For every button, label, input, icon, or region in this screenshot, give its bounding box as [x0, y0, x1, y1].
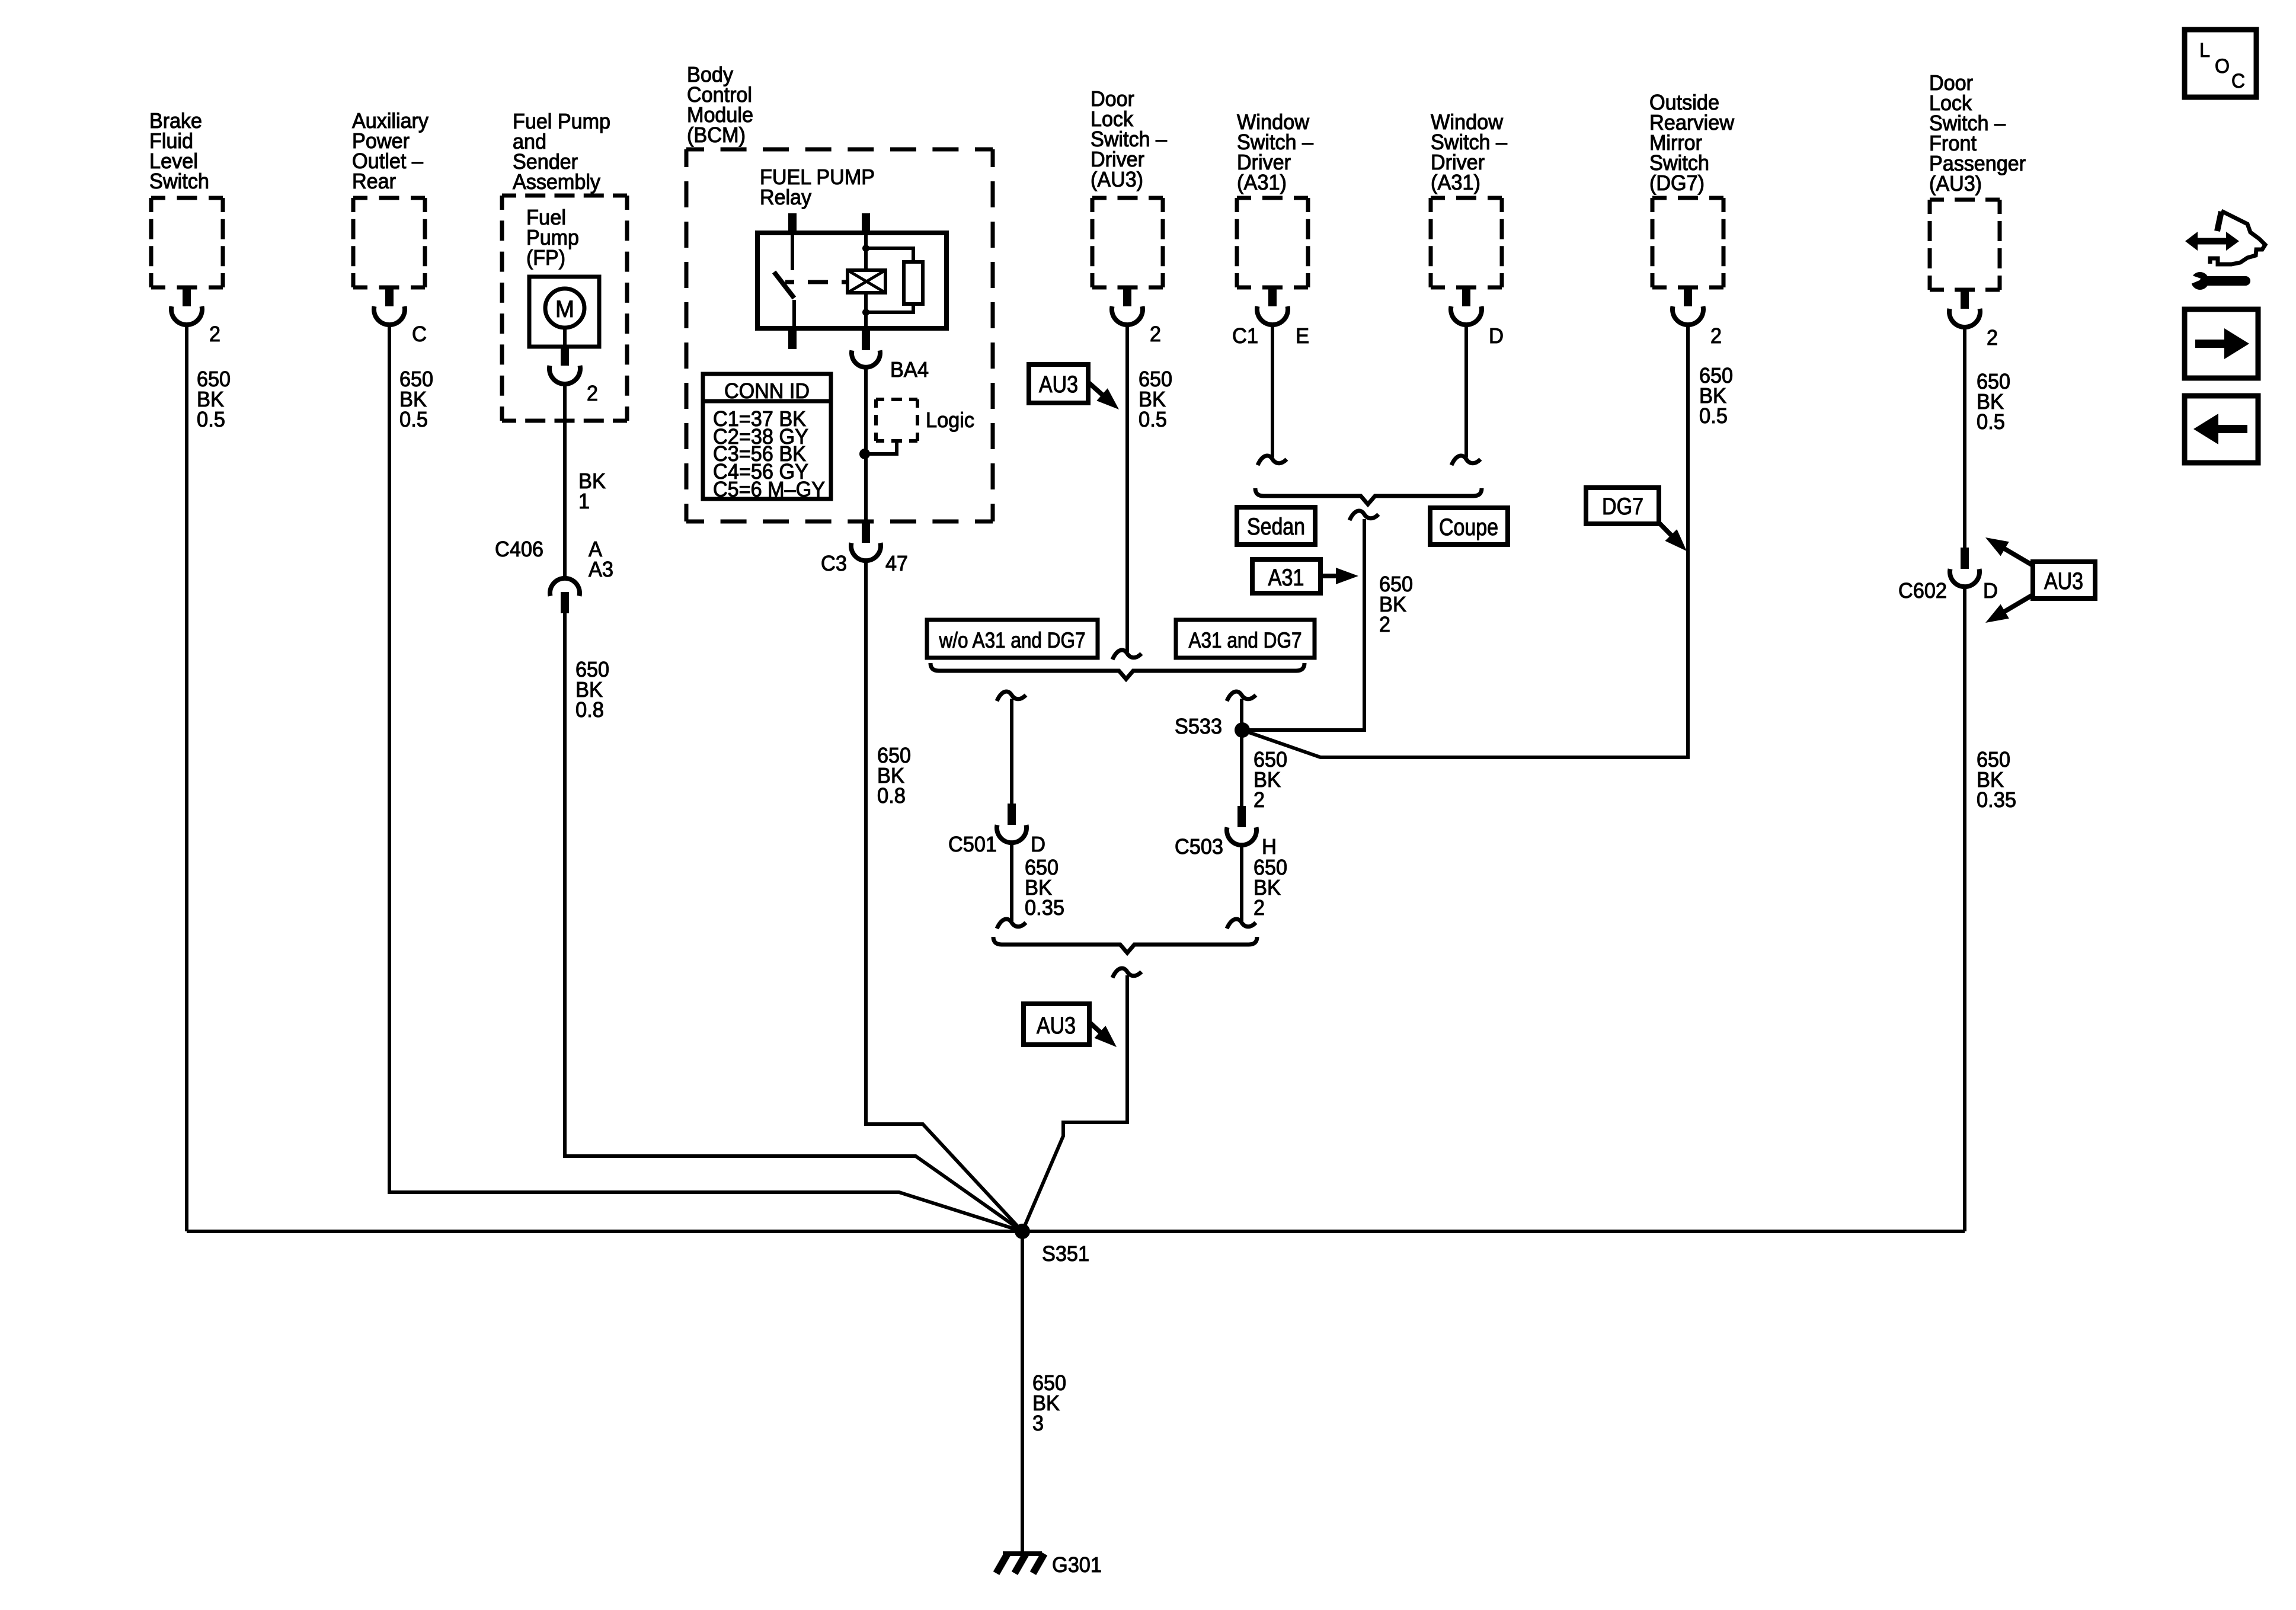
svg-text:DG7: DG7 [1602, 494, 1643, 520]
svg-text:(FP): (FP) [526, 245, 565, 270]
svg-text:G301: G301 [1052, 1553, 1102, 1577]
svg-text:(A31): (A31) [1431, 170, 1480, 194]
svg-text:(AU3): (AU3) [1929, 171, 1982, 196]
svg-text:0.5: 0.5 [197, 407, 225, 431]
svg-text:M: M [555, 296, 574, 322]
svg-text:AU3: AU3 [2044, 568, 2083, 594]
svg-text:2: 2 [1379, 612, 1390, 636]
svg-text:Assembly: Assembly [513, 169, 600, 194]
svg-text:2: 2 [1253, 788, 1265, 812]
svg-text:0.35: 0.35 [1025, 895, 1064, 920]
svg-text:L: L [2199, 39, 2210, 62]
svg-text:0.8: 0.8 [575, 697, 604, 722]
svg-text:D: D [1489, 324, 1504, 348]
svg-text:C: C [2231, 70, 2245, 92]
svg-text:0.5: 0.5 [1977, 409, 2005, 434]
svg-text:0.8: 0.8 [877, 783, 906, 808]
svg-text:0.35: 0.35 [1977, 788, 2016, 812]
svg-text:(DG7): (DG7) [1649, 171, 1705, 195]
svg-text:C3: C3 [821, 551, 847, 575]
svg-text:C1: C1 [1232, 324, 1258, 348]
svg-text:AU3: AU3 [1037, 1013, 1076, 1039]
svg-text:C503: C503 [1175, 834, 1223, 859]
svg-text:0.5: 0.5 [1699, 404, 1728, 428]
svg-text:D: D [1983, 578, 1998, 603]
svg-text:w/o A31 and DG7: w/o A31 and DG7 [939, 628, 1086, 652]
svg-text:A31: A31 [1268, 565, 1304, 591]
svg-text:C406: C406 [495, 537, 543, 561]
svg-text:1: 1 [578, 489, 590, 513]
svg-text:3: 3 [1032, 1411, 1044, 1435]
svg-text:2: 2 [1150, 322, 1161, 346]
svg-text:Sedan: Sedan [1247, 514, 1305, 540]
svg-text:S351: S351 [1042, 1241, 1089, 1266]
svg-text:2: 2 [587, 381, 598, 405]
svg-text:A31 and DG7: A31 and DG7 [1189, 628, 1302, 652]
svg-text:Relay: Relay [760, 185, 811, 209]
svg-text:BA4: BA4 [890, 357, 929, 382]
svg-text:(BCM): (BCM) [687, 123, 746, 147]
svg-text:Rear: Rear [352, 169, 396, 193]
svg-text:47: 47 [885, 551, 908, 575]
svg-text:2: 2 [1987, 325, 1998, 350]
svg-text:(A31): (A31) [1237, 170, 1287, 194]
svg-text:D: D [1031, 832, 1045, 856]
svg-text:C602: C602 [1898, 578, 1947, 603]
svg-text:2: 2 [209, 322, 220, 346]
svg-text:O: O [2215, 55, 2230, 78]
svg-text:2: 2 [1710, 324, 1722, 348]
svg-text:C5=6 M–GY: C5=6 M–GY [713, 477, 825, 501]
svg-text:0.5: 0.5 [1139, 407, 1167, 431]
svg-text:Coupe: Coupe [1439, 514, 1498, 540]
svg-text:A3: A3 [589, 557, 613, 581]
svg-text:(AU3): (AU3) [1091, 167, 1143, 191]
svg-text:C501: C501 [948, 832, 997, 856]
svg-text:Logic: Logic [926, 408, 974, 432]
svg-text:S533: S533 [1175, 714, 1222, 738]
svg-text:0.5: 0.5 [399, 407, 428, 431]
svg-text:C: C [412, 322, 427, 346]
svg-text:Switch: Switch [149, 169, 209, 193]
svg-text:E: E [1296, 324, 1309, 348]
svg-text:AU3: AU3 [1039, 372, 1078, 398]
svg-text:CONN ID: CONN ID [724, 379, 810, 403]
svg-text:2: 2 [1253, 895, 1265, 920]
